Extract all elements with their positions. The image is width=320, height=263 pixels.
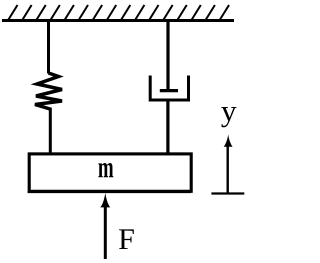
label y xyxy=(221,107,236,127)
ceiling line xyxy=(2,19,234,22)
spring K xyxy=(35,73,62,109)
y-axis reference baseline xyxy=(211,192,244,194)
ceiling hatch marks xyxy=(9,5,230,20)
mass block m xyxy=(29,154,191,191)
wire: damper cup to mass xyxy=(166,99,169,155)
mass block bottom edge xyxy=(28,191,191,193)
force arrow F shaft xyxy=(104,206,107,259)
damper cup (dashpot housing) xyxy=(150,76,188,101)
force arrow F head xyxy=(100,193,110,208)
y-axis arrow shaft xyxy=(226,145,228,194)
label F xyxy=(119,229,134,249)
wire: ceiling to spring top xyxy=(47,20,50,74)
wire: ceiling to damper piston rod xyxy=(166,20,169,91)
damper piston bar xyxy=(160,89,178,92)
label m xyxy=(98,163,113,177)
wire: spring bottom to mass xyxy=(49,108,52,156)
y-axis arrowhead xyxy=(224,134,233,147)
